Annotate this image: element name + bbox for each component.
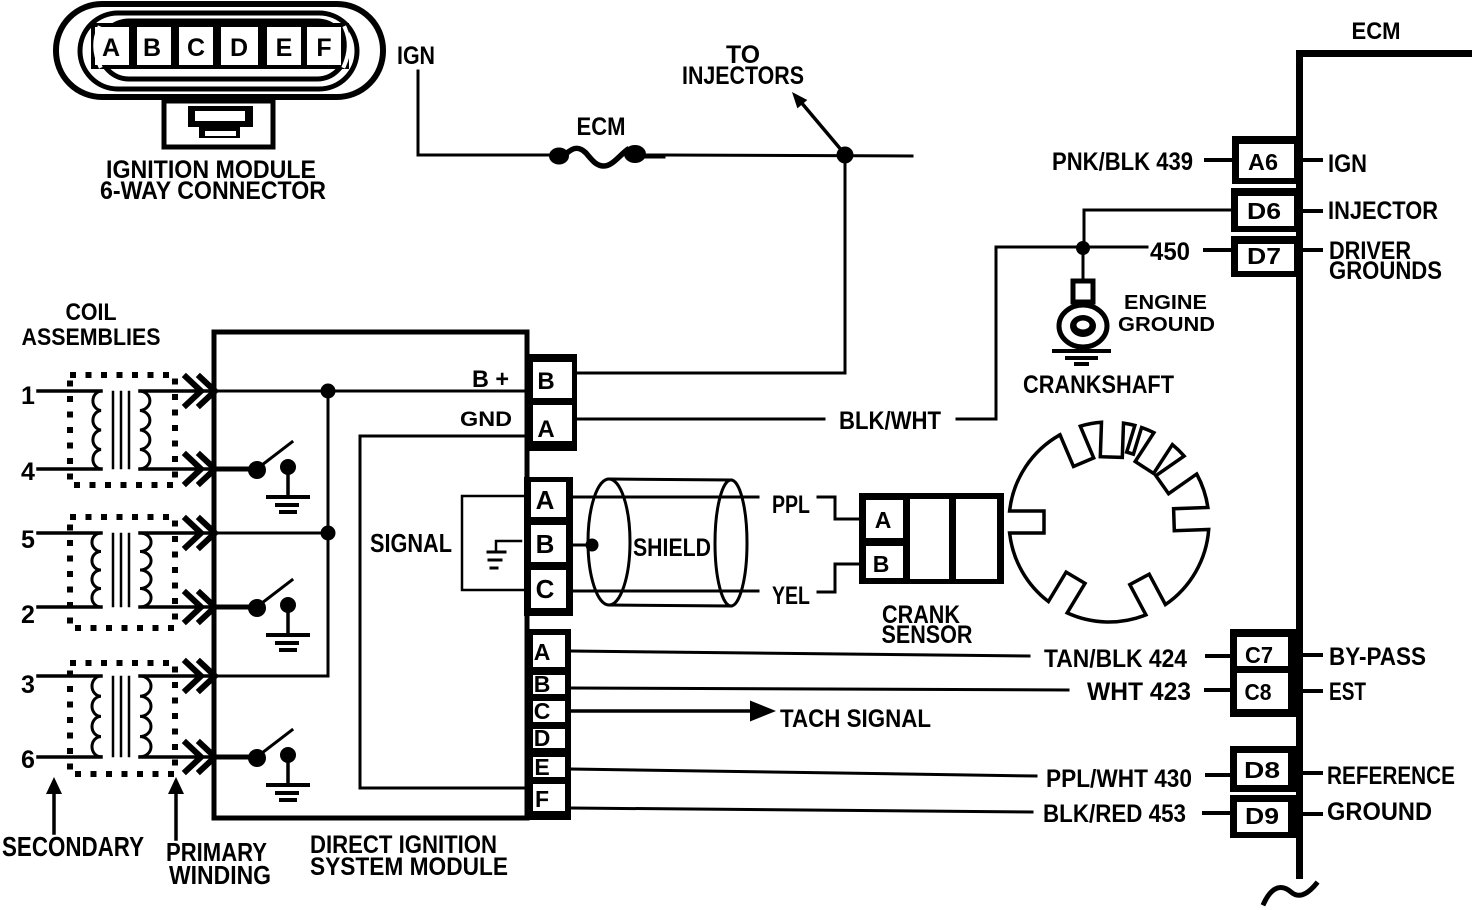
svg-text:TACH SIGNAL: TACH SIGNAL [780,705,931,733]
wire D6 injector to junction [1084,210,1231,248]
crankshaft reluctor wheel [1010,422,1209,622]
svg-text:PNK/BLK 439: PNK/BLK 439 [1052,148,1193,176]
svg-text:5: 5 [21,526,35,554]
wire PPL jog to sensor A [818,497,862,519]
svg-text:SIGNAL: SIGNAL [370,528,452,558]
secondary winding [92,533,101,607]
junction node 450 [1076,241,1090,255]
svg-text:B: B [536,529,555,559]
secondary winding [93,391,101,469]
ignition module 6-way connector outer shell [56,4,383,97]
svg-text:B: B [143,34,161,62]
coil assembly 3/6 dashed box [70,663,175,774]
wire BLK/WHT from DIS GND pin [578,418,824,421]
svg-text:4: 4 [21,458,35,486]
svg-text:B: B [534,671,551,697]
ECM boundary line horizontal top [1299,50,1472,57]
ground loop wire from pin A to pin C [462,496,524,590]
svg-text:D9: D9 [1245,803,1279,829]
pin A box [95,27,129,65]
svg-text:F: F [316,34,331,62]
wire TACH signal with arrow [571,709,752,713]
ECM line break squiggle [1264,884,1316,903]
wire YEL through shield [573,590,758,593]
svg-text:ENGINE: ENGINE [1124,292,1207,314]
svg-text:E: E [534,754,549,780]
svg-text:EST: EST [1329,678,1366,706]
svg-text:GROUND: GROUND [1327,798,1432,826]
pin C7 box [1230,629,1297,717]
pin B box [137,27,171,65]
svg-text:IGN: IGN [1328,150,1367,178]
svg-text:A: A [875,507,892,533]
chevron arrows row y=469 [186,455,201,483]
wire B pin stub to shield [573,544,588,547]
svg-text:A: A [102,34,120,62]
svg-text:ECM: ECM [577,113,626,141]
svg-text:CRANKSHAFT: CRANKSHAFT [1023,371,1174,399]
svg-text:D: D [230,34,248,62]
svg-text:D: D [534,725,551,751]
svg-text:D7: D7 [1247,243,1281,269]
svg-text:SYSTEM MODULE: SYSTEM MODULE [310,853,508,881]
svg-text:INJECTORS: INJECTORS [682,62,804,90]
svg-text:WHT 423: WHT 423 [1087,678,1191,706]
wire WHT 423 [571,688,1068,690]
coil assembly 5/2 dashed box [70,517,175,628]
svg-text:A6: A6 [1248,149,1278,175]
pin C box [179,27,213,65]
DIS module inner signal box [360,436,527,788]
svg-text:REFERENCE: REFERENCE [1327,762,1455,790]
pin F box [307,27,341,65]
pin D8 box [1230,746,1296,792]
svg-text:YEL: YEL [772,582,810,610]
svg-text:TAN/BLK 424: TAN/BLK 424 [1044,645,1187,673]
internal ground symbol [496,541,521,550]
svg-text:C7: C7 [1245,642,1273,668]
svg-text:3: 3 [21,671,35,699]
chevron arrows row y=607 [186,593,201,621]
pin B box (B+) [528,354,577,451]
svg-text:B +: B + [472,366,509,393]
shield cylinder [588,479,630,605]
pin D6 box [1231,188,1297,232]
svg-text:C: C [536,574,555,604]
wire TAN/BLK 424 [571,651,1029,656]
svg-text:A: A [537,416,554,443]
crank sensor body [859,493,1004,584]
svg-text:COIL: COIL [66,299,117,326]
svg-text:SECONDARY: SECONDARY [2,831,144,862]
wire PPL/WHT 430 [571,769,1036,776]
svg-text:450: 450 [1150,238,1190,266]
fuse ECM (fusible link) [549,148,569,165]
ignition module connector middle shell [80,13,357,89]
wire row 3 [214,675,328,678]
wire row 5 [214,532,328,535]
primary winding [140,533,151,607]
wire junction down to DIS B+ pin [578,155,845,373]
DIS module outline [214,332,527,818]
switch transistor to ground, row y=469 [214,467,250,472]
wire fuse to junction [664,155,912,156]
wire arrow to injectors [800,101,843,152]
svg-text:6: 6 [21,746,35,774]
svg-text:GROUNDS: GROUNDS [1329,257,1442,285]
wires to module [140,389,214,393]
engine ground symbol [1082,254,1085,280]
wire PPL through shield [573,496,758,499]
pin A6 box [1232,136,1297,184]
svg-text:GROUND: GROUND [1118,314,1215,336]
svg-text:D6: D6 [1247,198,1281,224]
svg-text:ECM: ECM [1352,18,1401,45]
pin D box [221,27,258,65]
transformer core [112,534,115,606]
pin D7 box [1231,236,1297,277]
coil assembly 1/4 dashed box [70,375,175,485]
connector mounting tab [164,101,273,147]
middle connector strip A B C [524,477,573,616]
wire B+ bus inside module [214,390,531,393]
svg-text:IGN: IGN [397,42,435,70]
ground symbol [268,633,308,637]
svg-text:B: B [537,368,554,395]
pin D9 box [1230,795,1296,838]
svg-text:A: A [536,485,555,515]
ECM boundary line vertical [1296,50,1303,879]
wires to module [140,531,214,535]
svg-text:WINDING: WINDING [169,860,271,890]
primary winding [140,676,151,757]
chevron arrows row y=391 [186,377,201,405]
svg-text:D8: D8 [1244,757,1280,783]
pin A box (GND) [533,405,572,441]
svg-text:BLK/RED 453: BLK/RED 453 [1043,800,1186,828]
wire IGN down and right to fuse [418,71,549,155]
svg-text:SENSOR: SENSOR [882,621,973,649]
wire BLK/RED 453 [571,808,1032,812]
bottom connector strip A-F [526,629,571,820]
svg-text:INJECTOR: INJECTOR [1328,197,1438,225]
wires to module [140,674,214,678]
svg-text:2: 2 [21,601,35,629]
svg-text:BLK/WHT: BLK/WHT [839,407,941,435]
svg-text:A: A [534,639,551,665]
transformer core [112,392,115,468]
chevron arrows row y=757 [186,743,201,771]
svg-text:E: E [276,34,293,62]
pin E box [267,27,301,65]
ground symbol [268,495,308,499]
svg-text:F: F [535,786,549,812]
switch transistor to ground, row y=757 [214,755,250,760]
switch transistor to ground, row y=607 [214,605,250,610]
ignition module connector inner strip [100,21,346,79]
svg-text:C8: C8 [1245,679,1272,705]
chevron arrows row y=676 [186,662,201,690]
svg-text:GND: GND [460,408,512,431]
primary winding [140,391,150,469]
svg-text:6-WAY CONNECTOR: 6-WAY CONNECTOR [100,177,326,205]
junction node [837,147,854,164]
svg-text:C: C [187,34,205,62]
svg-text:PPL: PPL [772,491,810,519]
wire YEL jog to sensor B [818,564,862,592]
secondary winding [92,676,101,757]
svg-text:BY-PASS: BY-PASS [1329,643,1426,671]
svg-text:ASSEMBLIES: ASSEMBLIES [22,324,161,351]
svg-text:B: B [873,551,890,577]
svg-text:C: C [534,698,551,724]
svg-text:1: 1 [21,382,35,410]
ground symbol [268,783,308,787]
chevron arrows row y=533 [186,519,201,547]
svg-text:PPL/WHT 430: PPL/WHT 430 [1046,765,1192,793]
transformer core [112,677,115,756]
svg-text:SHIELD: SHIELD [633,534,711,562]
